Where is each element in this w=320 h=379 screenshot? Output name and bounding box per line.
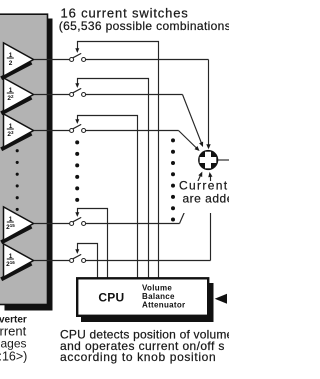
value label 1/2^2 — [7, 87, 14, 102]
control wire SW1 from CPU — [78, 42, 159, 279]
amplifier A4 shadow — [1, 227, 31, 243]
wire A4 output to switch SW4 — [34, 223, 69, 225]
switch SW5 — [70, 249, 86, 262]
wire A1 output to switch SW1 — [34, 59, 69, 61]
wire A5 output to switch SW5 — [34, 260, 69, 262]
control arrowhead at SW3 — [75, 119, 79, 124]
svg-text::16>): :16>) — [0, 350, 27, 364]
value label 1/2^15 — [6, 216, 15, 231]
amplifier A5 (gain 1/2^16) — [4, 244, 34, 277]
arrowhead wire SW4 into node — [198, 172, 202, 177]
wire SW3 to summing node (diagonal) — [179, 131, 199, 150]
amplifier A5 shadow — [1, 264, 31, 280]
wire SW1 to summing node (horizontal) — [86, 59, 209, 61]
value label 1/2^1 — [7, 52, 14, 67]
wire A3 output to switch SW3 — [34, 130, 69, 132]
D/A converter panel shadow — [5, 19, 53, 311]
switch SW1 — [70, 48, 86, 61]
control wire SW3 from CPU — [78, 116, 138, 279]
amplifier A2 shadow — [1, 98, 31, 114]
arrowhead wire SW3 into node — [195, 146, 200, 151]
arrowhead wire SW1 into node — [206, 144, 210, 149]
amplifier A2 (gain 1/2^2) — [4, 78, 34, 111]
svg-text:CPU: CPU — [98, 291, 124, 305]
switch SW3 — [70, 119, 86, 132]
caption: 16 current switches — [59, 6, 231, 34]
wire SW5 to summing node (horizontal) — [86, 260, 211, 262]
switch SW4 — [70, 212, 86, 225]
amplifier A3 shadow — [1, 134, 31, 150]
amplifier A3 (gain 1/2^3) — [4, 114, 34, 147]
control arrowhead at SW1 — [75, 48, 79, 53]
control arrowhead at SW4 — [75, 212, 79, 217]
CPU box shadow — [81, 283, 214, 322]
control wire SW2 from CPU — [78, 79, 149, 279]
wire SW3 to summing node (horizontal) — [86, 130, 179, 132]
control arrowhead at SW5 — [75, 249, 79, 254]
wire A2 output to switch SW2 — [34, 94, 69, 96]
ellipsis dots (switch column) — [75, 140, 79, 202]
switch SW2 — [70, 83, 86, 96]
amplifier A4 (gain 1/2^15) — [4, 207, 34, 240]
control wire SW4 from CPU — [78, 209, 108, 279]
label Volume Balance Attenuator — [142, 284, 185, 310]
svg-text:(65,536 possible combinations: (65,536 possible combinations — [59, 19, 229, 33]
wire SW1 to summing node (vertical drop) — [208, 60, 210, 146]
value label 1/2^16 — [6, 253, 15, 268]
summing node output wire — [218, 159, 230, 161]
D/A converter panel — [0, 14, 48, 304]
arrowhead wire SW2 into node — [199, 142, 203, 147]
ellipsis dots (panel) — [16, 149, 19, 211]
wire SW2 to summing node (horizontal) — [86, 94, 183, 96]
node label: Currents are added — [177, 179, 242, 213]
knob input arrow to CPU — [215, 294, 227, 304]
wire SW4 to summing node (horizontal) — [86, 223, 180, 225]
wire SW4 to summing node (diagonal) — [180, 173, 202, 224]
value label 1/2^3 — [7, 123, 14, 138]
svg-text:according to knob position: according to knob position — [60, 350, 216, 364]
ellipsis dots (right column) — [171, 138, 175, 221]
svg-text:ages: ages — [1, 336, 27, 350]
CPU U1 (CPU / Volume Balance Attenuator) — [77, 278, 208, 316]
caption: CPU detects position of volume — [60, 328, 234, 364]
control arrowhead at SW2 — [75, 83, 79, 88]
summing node (currents are added) — [198, 150, 218, 170]
amplifier A1 (gain 1/2^1) — [4, 43, 34, 76]
amplifier A1 shadow — [1, 63, 31, 79]
control wire SW5 from CPU — [78, 244, 98, 279]
svg-text:are added: are added — [183, 192, 230, 206]
wire SW2 to summing node (diagonal) — [183, 95, 203, 145]
svg-text:Attenuator: Attenuator — [142, 301, 185, 310]
arrowhead wire SW5 into node — [208, 172, 212, 177]
wire SW5 to summing node (vertical rise) — [210, 174, 212, 261]
svg-text:2: 2 — [9, 60, 13, 67]
svg-text:Balance: Balance — [142, 292, 175, 301]
